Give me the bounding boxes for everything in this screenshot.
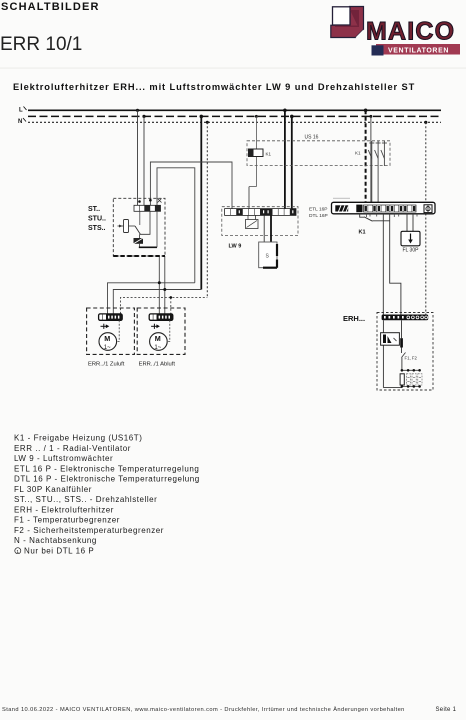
svg-text:ERR 10/1: ERR 10/1 — [0, 34, 82, 55]
svg-text:1: 1 — [16, 549, 19, 555]
svg-text:SCHALTBILDER: SCHALTBILDER — [1, 1, 100, 13]
svg-text:ERH...: ERH... — [343, 314, 365, 323]
svg-text:F1 - Temperaturbegrenzer: F1 - Temperaturbegrenzer — [14, 516, 120, 525]
svg-text:N: N — [18, 119, 22, 125]
svg-text:US 16: US 16 — [305, 135, 319, 141]
svg-text:MAICO: MAICO — [366, 18, 455, 46]
svg-text:FL 30P: FL 30P — [403, 248, 420, 254]
svg-text:K1: K1 — [266, 152, 272, 157]
svg-text:1~: 1~ — [104, 345, 111, 351]
svg-text:DTL 16P: DTL 16P — [309, 213, 328, 219]
svg-text:ERR../1 Abluft: ERR../1 Abluft — [139, 362, 176, 368]
svg-text:FL 30P Kanalfühler: FL 30P Kanalfühler — [14, 485, 92, 494]
svg-text:K1: K1 — [359, 230, 366, 236]
svg-text:F1, F2: F1, F2 — [405, 356, 418, 361]
svg-text:Nur bei DTL 16 P: Nur bei DTL 16 P — [24, 546, 94, 555]
svg-text:ST..: ST.. — [88, 206, 100, 213]
svg-text:L: L — [19, 108, 23, 114]
svg-text:ETL 16 P - Elektronische Tempe: ETL 16 P - Elektronische Temperaturregel… — [14, 464, 199, 473]
svg-text:ERR .. / 1 - Radial-Ventilator: ERR .. / 1 - Radial-Ventilator — [14, 444, 131, 453]
svg-text:ERH - Elektrolufterhitzer: ERH - Elektrolufterhitzer — [14, 505, 114, 514]
svg-text:STU..: STU.. — [88, 216, 106, 223]
svg-text:M: M — [104, 334, 110, 343]
svg-text:STS..: STS.. — [88, 225, 106, 232]
svg-text:VENTILATOREN: VENTILATOREN — [388, 48, 449, 55]
svg-text:N - Nachtabsenkung: N - Nachtabsenkung — [14, 536, 97, 545]
svg-text:ETL 16P: ETL 16P — [309, 207, 328, 213]
svg-text:Stand 10.06.2022 - MAICO VENTI: Stand 10.06.2022 - MAICO VENTILATOREN, w… — [2, 706, 405, 713]
svg-text:ERR../1 Zuluft: ERR../1 Zuluft — [88, 362, 125, 368]
svg-text:K1 - Freigabe Heizung (US16T): K1 - Freigabe Heizung (US16T) — [14, 434, 142, 443]
svg-text:DTL 16 P - Elektronische Tempe: DTL 16 P - Elektronische Temperaturregel… — [14, 475, 200, 484]
svg-text:Elektrolufterhitzer ERH... mit: Elektrolufterhitzer ERH... mit Luftstrom… — [13, 82, 415, 92]
svg-text:Seite 1: Seite 1 — [436, 707, 457, 713]
svg-text:LW 9 - Luftstromwächter: LW 9 - Luftstromwächter — [14, 454, 113, 463]
svg-text:ST.., STU.., STS.. - Drehzahls: ST.., STU.., STS.. - Drehzahlsteller — [14, 495, 157, 504]
svg-text:1~: 1~ — [154, 345, 161, 351]
svg-text:F2 - Sicherheitstemperaturbegr: F2 - Sicherheitstemperaturbegrenzer — [14, 526, 164, 535]
svg-text:K1: K1 — [355, 151, 361, 156]
svg-text:M: M — [155, 334, 161, 343]
svg-text:LW 9: LW 9 — [229, 244, 242, 250]
